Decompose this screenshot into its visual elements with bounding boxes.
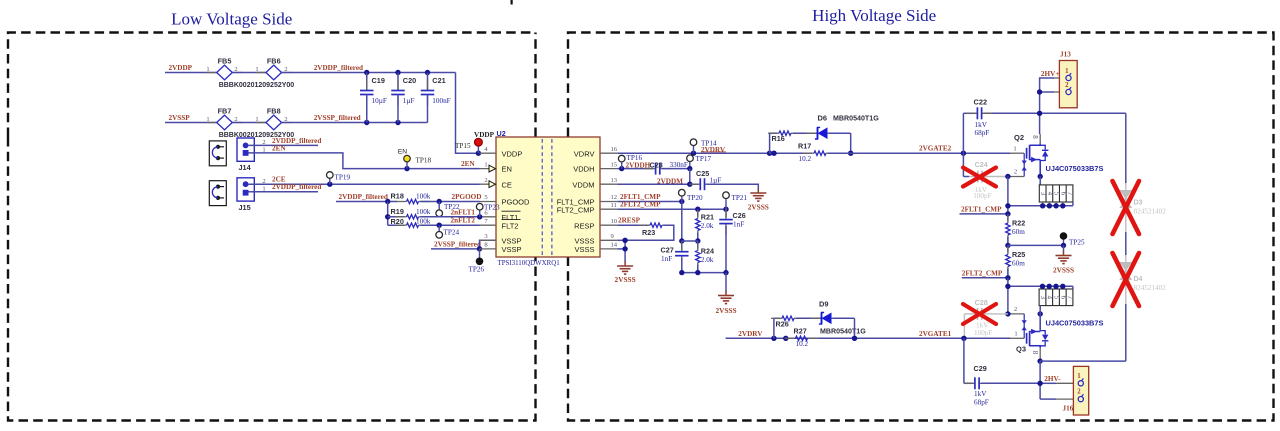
junction R16 branch (767, 151, 772, 156)
wire 2VDRV row (726, 337, 1010, 339)
DNP cross D4 (1113, 253, 1140, 306)
svg-text:CE: CE (502, 180, 512, 189)
junction C27 mid (679, 238, 684, 243)
svg-text:2VSSS: 2VSSS (615, 275, 636, 284)
capacitor C29 1kV 68pF (963, 338, 965, 383)
svg-text:10: 10 (611, 218, 618, 225)
svg-text:2.0k: 2.0k (701, 256, 714, 264)
junction TP22 stub (437, 199, 442, 204)
svg-text:15: 15 (611, 161, 618, 168)
svg-text:13: 13 (611, 177, 618, 184)
junction VSSP (477, 246, 482, 251)
pin 10 RESP (600, 224, 617, 226)
svg-text:1µF: 1µF (403, 97, 415, 105)
svg-text:2: 2 (484, 177, 487, 184)
junction VDDM C23 (687, 182, 692, 187)
svg-text:100pF: 100pF (973, 192, 991, 200)
svg-text:TP20: TP20 (687, 194, 703, 202)
svg-text:R19: R19 (391, 207, 404, 216)
resistor R23 (639, 224, 650, 226)
capacitor C19 (366, 73, 368, 91)
svg-text:C27: C27 (661, 246, 674, 255)
pin 7 FLT2 (480, 224, 497, 226)
high voltage side dashed border (568, 33, 1274, 421)
svg-text:2VSSS: 2VSSS (715, 306, 736, 315)
svg-text:MBR0540T1G: MBR0540T1G (833, 114, 879, 122)
svg-text:TP16: TP16 (627, 154, 643, 162)
top center tick (511, 0, 513, 5)
wire pullup vertical (387, 202, 389, 226)
connector J14 (237, 138, 254, 161)
svg-text:J14: J14 (239, 163, 252, 172)
pin 2 CE (480, 183, 497, 185)
wire Q3 kelvin bus (1008, 285, 1073, 287)
DNP cross C24 (963, 168, 996, 187)
test point TP24 (438, 225, 440, 231)
svg-text:2VSSP: 2VSSP (169, 114, 191, 122)
svg-text:D4: D4 (1134, 276, 1143, 283)
wire Q2 drain stub (1039, 134, 1041, 143)
wire rail to ground (725, 273, 727, 292)
svg-text:R24: R24 (701, 246, 714, 255)
resistor R19 100k (396, 216, 407, 218)
svg-text:R23: R23 (642, 228, 655, 237)
capacitor C28 DNP 1kV 100pF (grey) (964, 313, 975, 315)
svg-text:EN: EN (502, 165, 512, 174)
svg-text:J15: J15 (239, 203, 251, 212)
junction TP15 stub (476, 151, 481, 156)
svg-text:2RESP: 2RESP (618, 217, 641, 225)
pin 8 VSSP (480, 248, 497, 250)
svg-text:C19: C19 (372, 76, 385, 85)
junction rail C26 (723, 270, 728, 275)
test point TP23 (479, 210, 481, 217)
svg-text:1nF: 1nF (733, 221, 744, 229)
svg-text:1: 1 (206, 66, 209, 73)
wire R26 branch up (773, 318, 775, 338)
svg-text:11: 11 (611, 202, 617, 209)
svg-text:5: 5 (484, 194, 488, 201)
net label 2FLT1_CMP (shunt) (960, 213, 1008, 215)
svg-text:1µF: 1µF (710, 176, 722, 184)
wire FB8 to C21 bottom (282, 122, 428, 124)
capacitor C20 (397, 73, 399, 91)
wire drain loop bottom (1040, 360, 1126, 362)
svg-text:U2: U2 (497, 129, 506, 138)
wire bottom rail (682, 272, 726, 274)
junction Q2 source (1038, 174, 1043, 179)
svg-text:8: 8 (484, 242, 488, 249)
junction Q3 bus (1005, 284, 1010, 289)
svg-text:J13: J13 (1060, 51, 1071, 59)
svg-text:FB8: FB8 (267, 107, 281, 116)
wire 2VDDP_filtered to R18 (336, 201, 397, 203)
pin 13 VDDM (600, 183, 617, 185)
svg-text:1: 1 (262, 147, 265, 154)
svg-text:7: 7 (1066, 192, 1073, 196)
junction FLT1_CMP tap (1005, 211, 1010, 216)
resistor R16 (768, 132, 779, 134)
svg-text:14: 14 (611, 242, 618, 249)
Q3 source pins 3-7 block (1039, 289, 1073, 306)
wire mid link (682, 240, 698, 242)
svg-text:C26: C26 (733, 211, 746, 220)
resistor R22 60m (1007, 214, 1009, 221)
wire C23 to VDDM (689, 169, 691, 185)
junction R21 R24 mid (695, 238, 700, 243)
Q2 source pins 3-7 block (1039, 185, 1073, 202)
svg-text:BBBK00201209252Y00: BBBK00201209252Y00 (219, 82, 295, 89)
svg-text:9: 9 (611, 233, 615, 240)
svg-text:MBR0540T1G: MBR0540T1G (820, 327, 866, 335)
ground 2VSSS (pins 9/14) (624, 262, 626, 267)
svg-text:C28: C28 (975, 298, 988, 307)
diode D3 DNP (grey TVS) (1125, 183, 1127, 190)
svg-text:60m: 60m (1012, 259, 1025, 267)
pin 3 VSSP (480, 239, 497, 241)
svg-text:1kV: 1kV (975, 121, 988, 129)
junction C20 bottom (395, 120, 400, 125)
test point TP20 (681, 196, 683, 202)
pin 14 VSSS (600, 248, 617, 250)
svg-text:7: 7 (484, 218, 488, 225)
resistor R26 (771, 317, 782, 319)
connector J16 (1073, 366, 1088, 415)
svg-text:C24: C24 (975, 160, 988, 169)
ground 2VSSS (C26) (725, 291, 727, 296)
wire FB7 to FB8 (232, 122, 266, 124)
svg-text:Q2: Q2 (1014, 133, 1024, 142)
svg-text:824521402: 824521402 (1134, 208, 1167, 216)
svg-text:2EN: 2EN (461, 160, 475, 168)
wire FLT2_CMP (617, 208, 726, 210)
svg-text:1: 1 (1013, 146, 1016, 153)
svg-text:TP18: TP18 (416, 156, 432, 164)
svg-text:1kV: 1kV (974, 390, 987, 398)
svg-text:60m: 60m (1012, 228, 1025, 236)
wire Q3 kelvin stub (1008, 313, 1024, 315)
wire D6 to branch down (829, 132, 851, 134)
low voltage side dashed border (8, 33, 536, 138)
capacitor C21 (427, 73, 429, 91)
wire R23 loop to VSSS (625, 225, 674, 240)
junction kelvin bus (1005, 203, 1010, 208)
svg-text:UJ4C075033B7S: UJ4C075033B7S (1046, 164, 1104, 173)
ferrite bead FB5 (207, 72, 217, 74)
wire Q2 kelvin bus (1008, 205, 1073, 207)
pin 5 PGOOD (480, 201, 497, 203)
svg-text:2VDRV: 2VDRV (738, 330, 763, 338)
ground 2VSSS (TP25) (1063, 245, 1065, 251)
svg-text:5: 5 (1053, 192, 1060, 196)
pin 1 EN (480, 168, 497, 170)
svg-text:2PGOOD: 2PGOOD (452, 193, 482, 201)
svg-text:VDDP: VDDP (502, 149, 523, 158)
svg-text:TP15: TP15 (455, 142, 471, 150)
junction TP18 stub (404, 166, 409, 171)
svg-text:3: 3 (1039, 192, 1046, 196)
junction FLT2_CMP tap (1005, 275, 1010, 280)
junction Q3 kelvin (1005, 311, 1010, 316)
test point TP14 (693, 146, 695, 153)
svg-text:100k: 100k (416, 208, 431, 216)
svg-text:UJ4C075033B7S: UJ4C075033B7S (1046, 318, 1104, 327)
test point TP26 (black) (479, 249, 481, 258)
svg-text:R21: R21 (701, 212, 714, 221)
wire Q3 source to block (1039, 306, 1041, 332)
test point TP18 EN (yellow) (406, 162, 408, 169)
svg-text:2VDDP_filtered: 2VDDP_filtered (314, 64, 363, 72)
junction VSSS pin14 (622, 246, 627, 251)
svg-text:R27: R27 (794, 327, 807, 336)
wire R20 row (388, 224, 405, 226)
svg-text:1: 1 (255, 66, 258, 73)
svg-text:824521402: 824521402 (1134, 284, 1167, 292)
svg-text:D3: D3 (1134, 200, 1143, 207)
svg-text:C21: C21 (432, 76, 445, 85)
pin 12 FLT1_CMP (600, 201, 617, 203)
svg-text:TP17: TP17 (696, 155, 712, 163)
svg-text:TP21: TP21 (732, 194, 748, 202)
junction TP17 bottom (687, 166, 692, 171)
svg-text:2HV-: 2HV- (1044, 375, 1061, 383)
svg-text:100nF: 100nF (432, 97, 450, 105)
svg-text:C25: C25 (696, 169, 709, 178)
ferrite bead FB6 (256, 72, 266, 74)
svg-text:1: 1 (1014, 331, 1017, 338)
svg-text:2: 2 (1014, 306, 1017, 313)
wire 2VSSP to FB7 (165, 122, 217, 124)
wire Q2 kelvin vertical (1007, 177, 1009, 214)
svg-text:Low Voltage Side: Low Voltage Side (171, 10, 292, 29)
wire J15 pin1 2VDDP_filtered (249, 191, 319, 193)
wire RESP to R23 (617, 224, 648, 226)
svg-text:VDDP: VDDP (474, 131, 495, 139)
wire C25 to ground (707, 184, 759, 189)
capacitor C22 1kV 68pF (966, 112, 977, 114)
svg-text:C20: C20 (403, 76, 416, 85)
svg-text:2VDDM: 2VDDM (657, 178, 683, 186)
svg-text:2VDDP: 2VDDP (169, 64, 193, 72)
svg-text:3: 3 (1039, 296, 1046, 300)
svg-text:2EN: 2EN (272, 144, 286, 152)
svg-text:2VDDP_filtered: 2VDDP_filtered (272, 183, 321, 191)
svg-text:4: 4 (1046, 296, 1053, 300)
junction rail R24 (695, 270, 700, 275)
wire 2VSSP_filtered to VSSP pins (431, 248, 480, 250)
svg-text:FB6: FB6 (267, 57, 281, 66)
svg-text:5: 5 (1053, 296, 1060, 300)
net label 2FLT2_CMP (shunt) (962, 277, 1008, 279)
svg-text:7: 7 (1066, 296, 1073, 300)
svg-text:2VDDP_filtered: 2VDDP_filtered (339, 193, 388, 201)
test point TP15 (red) (477, 146, 479, 153)
svg-text:2nFLT2: 2nFLT2 (451, 217, 476, 225)
wire VDDM to C25 (617, 183, 698, 185)
wire drain loop top (963, 112, 975, 114)
pin 11 FLT2_CMP (600, 208, 617, 210)
svg-text:VSSP: VSSP (502, 245, 522, 254)
ferrite bead FB7 (207, 122, 217, 124)
diode D9 MBR0540T1G (811, 317, 822, 319)
svg-text:2: 2 (262, 178, 265, 185)
svg-text:R16: R16 (772, 134, 785, 143)
resistor R27 10.2 (785, 337, 796, 339)
junction C22 right (1037, 111, 1042, 116)
diode D6 MBR0540T1G (807, 132, 818, 134)
svg-text:4: 4 (1046, 192, 1053, 196)
svg-text:2VSSS: 2VSSS (748, 203, 769, 212)
wire 2HV+ node (1040, 78, 1054, 134)
junction C20 top (395, 70, 400, 75)
wire 2VGATE2 to Q2 gate (851, 152, 1010, 154)
wire R16 to D6 (793, 132, 817, 134)
resistor R18 100k (396, 201, 407, 203)
junction D9 return (852, 336, 857, 341)
svg-text:2FLT1_CMP: 2FLT1_CMP (961, 205, 1002, 213)
junction Q3 source top (1038, 311, 1043, 316)
svg-text:High Voltage Side: High Voltage Side (812, 6, 936, 25)
svg-text:2VGATE1: 2VGATE1 (919, 330, 952, 338)
svg-text:100k: 100k (416, 193, 431, 201)
junction TP14 stub (691, 151, 696, 156)
svg-text:RESP: RESP (574, 221, 594, 230)
resistor R25 60m (1007, 245, 1009, 252)
svg-text:VDRV: VDRV (574, 149, 595, 158)
wire shunt to Q3 bus (1007, 278, 1009, 314)
svg-text:1: 1 (255, 116, 258, 123)
svg-text:2VDRV: 2VDRV (701, 146, 726, 154)
wire 2HV- node (1039, 361, 1041, 399)
svg-text:2VSSP_filtered: 2VSSP_filtered (434, 240, 481, 248)
svg-text:C29: C29 (974, 364, 987, 373)
wire R19 to FLT1 pin (421, 216, 480, 218)
capacitor C25 1uF (689, 183, 700, 185)
svg-text:6: 6 (1059, 192, 1066, 196)
svg-text:6: 6 (1059, 296, 1066, 300)
svg-text:1kV: 1kV (976, 321, 989, 329)
junction C21 top (425, 70, 430, 75)
wire Q2 kelvin stub (1008, 176, 1024, 178)
diode D4 DNP (grey TVS) (1125, 255, 1127, 262)
wire C22 down to gate (962, 113, 964, 153)
svg-text:2VGATE2: 2VGATE2 (919, 145, 952, 153)
svg-text:330nF: 330nF (670, 161, 688, 169)
junction VSSS pin9 (622, 238, 627, 243)
svg-text:100k: 100k (416, 218, 431, 226)
ground 2VSSS (C25) (757, 189, 759, 194)
svg-text:12: 12 (611, 194, 618, 201)
svg-text:FLT2_CMP: FLT2_CMP (557, 205, 595, 214)
resistor R17 10.2 (770, 152, 812, 154)
svg-text:TP25: TP25 (1069, 238, 1085, 246)
svg-text:68pF: 68pF (974, 398, 989, 406)
junction TP20 stub (679, 199, 684, 204)
wire VDRV to R16 node (617, 152, 769, 154)
pin 15 VDDH (600, 168, 617, 170)
wire TP25 row (1008, 244, 1064, 246)
svg-text:68pF: 68pF (975, 129, 990, 137)
wire VSSS pins (617, 239, 625, 241)
svg-text:VSSS: VSSS (574, 245, 594, 254)
svg-text:2: 2 (1065, 82, 1069, 89)
svg-text:1: 1 (206, 116, 209, 123)
wire R16 branch up (769, 133, 771, 153)
op-amp U2 TPSI3110QDWXRQ1 body (496, 137, 600, 257)
jumper shunt for J15 (209, 181, 226, 206)
resistor R21 2.0k (697, 209, 699, 216)
DNP cross C28 (963, 304, 996, 324)
junction C22 column (961, 151, 966, 156)
junction R17 left (771, 151, 776, 156)
junction TP21 stub (723, 207, 728, 212)
pin 6 FLT1 (480, 216, 497, 218)
pin 16 VDRV (600, 152, 617, 154)
wire Q2 source to pins (1039, 177, 1041, 185)
svg-text:TP26: TP26 (469, 266, 485, 274)
svg-text:100pF: 100pF (974, 329, 992, 337)
wire drain loop right vertical (1125, 113, 1127, 183)
junction TP19 stub (327, 182, 332, 187)
connector J15 (237, 178, 254, 201)
wire J14 pin1 2EN to EN pin (249, 153, 480, 169)
svg-text:10.2: 10.2 (796, 340, 809, 348)
svg-text:2: 2 (262, 139, 265, 146)
svg-text:10.2: 10.2 (799, 155, 812, 163)
svg-text:FB7: FB7 (218, 107, 232, 116)
junction R27 left (783, 336, 788, 341)
svg-text:2nFLT1: 2nFLT1 (451, 208, 476, 216)
test point TP16 (621, 162, 623, 169)
svg-text:FB5: FB5 (218, 57, 232, 66)
test point TP19 (329, 178, 331, 184)
wire J15 pin2 2CE to CE pin (249, 183, 480, 185)
wire R19 row (388, 216, 405, 218)
svg-text:VDDM: VDDM (572, 180, 594, 189)
svg-text:TP24: TP24 (444, 229, 460, 237)
svg-text:8: 8 (1031, 135, 1039, 139)
svg-text:R17: R17 (798, 142, 811, 151)
svg-text:1: 1 (484, 161, 487, 168)
capacitor C24 DNP 1kV 100pF (grey) (962, 153, 964, 176)
svg-text:EN: EN (398, 149, 407, 156)
svg-text:3: 3 (484, 233, 488, 240)
svg-text:R25: R25 (1012, 250, 1025, 259)
svg-text:R22: R22 (1012, 218, 1025, 227)
junction R21 top (695, 207, 700, 212)
junction TP25 (1061, 243, 1066, 248)
junction rail C27 (679, 270, 684, 275)
junction C19 bottom (364, 120, 369, 125)
svg-text:2: 2 (1077, 389, 1081, 396)
wire C27 column (681, 202, 683, 250)
svg-text:2FLT2_CMP: 2FLT2_CMP (620, 201, 661, 209)
svg-text:TPSI3110QDWXRQ1: TPSI3110QDWXRQ1 (498, 260, 561, 267)
capacitor C27 1nF (681, 241, 683, 252)
wire FB5 to FB6 (232, 72, 266, 74)
wire C28 column up (963, 314, 965, 338)
svg-text:C23: C23 (650, 161, 663, 170)
svg-text:2VSSS: 2VSSS (1053, 266, 1074, 275)
junction 2HV- C29 (1037, 381, 1042, 386)
svg-text:10µF: 10µF (372, 97, 387, 105)
test point TP25 (black) (1063, 239, 1065, 245)
wire R18 to PGOOD pin (421, 201, 480, 203)
svg-text:1: 1 (1077, 373, 1081, 380)
junction J13 pin2 (1037, 89, 1042, 94)
capacitor C26 1nF (725, 209, 727, 217)
pin 9 VSSS (600, 239, 617, 241)
